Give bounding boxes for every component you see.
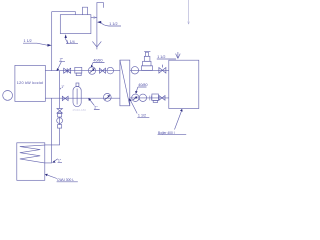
- svg-text:1'': 1'': [58, 159, 61, 163]
- flow arrow into bojler top: [176, 52, 181, 59]
- label 40/80 pump: [91, 59, 105, 68]
- label 2'' bottom with arrow: [88, 98, 99, 110]
- pump circle CP: [57, 118, 63, 124]
- right top vertical pipe: [188, 0, 190, 24]
- bojler tank 400 l: [169, 60, 199, 108]
- vertical branch pipe: [59, 71, 61, 109]
- wire top pipe to expansion tank: [52, 12, 76, 15]
- label 1 1/2 top-left: [23, 39, 52, 47]
- fitting square S1: [58, 114, 62, 118]
- top right pipe HX to bojler: [130, 69, 169, 71]
- label CWU 300 L: [45, 174, 78, 182]
- valve on bottom row: [62, 96, 68, 100]
- svg-text:40/80: 40/80: [138, 83, 147, 87]
- svg-text:1'': 1'': [61, 85, 64, 89]
- middle supply pipe: [45, 70, 120, 72]
- check valve V2: [100, 68, 106, 73]
- pump P2: [103, 94, 111, 102]
- label 2'' top of vertical branch: [57, 58, 66, 71]
- CWU tank: [17, 143, 45, 181]
- svg-text:1 1/2: 1 1/2: [138, 114, 146, 118]
- strainer/filter right: [152, 94, 159, 102]
- svg-text:CWU 300 L: CWU 300 L: [57, 178, 74, 182]
- expansion vessel capsule: [73, 83, 81, 107]
- wire tank outlet: [91, 17, 97, 19]
- wire branch to CWU top port: [45, 117, 60, 145]
- valve on branch (vertical bowtie): [57, 109, 62, 113]
- label 1 1/2 right top: [157, 55, 176, 59]
- svg-text:2'': 2'': [94, 106, 98, 110]
- safety valve group: [142, 52, 153, 71]
- meter circle C2: [107, 67, 114, 74]
- union fitting ticks: [150, 96, 152, 101]
- svg-text:Bojler 400 l: Bojler 400 l: [158, 131, 175, 135]
- bottom pipe right of HX: [130, 97, 169, 99]
- svg-text:1 1/2: 1 1/2: [157, 55, 165, 59]
- arrow small outlet: [93, 16, 96, 19]
- svg-text:120 kW kocioł: 120 kW kocioł: [17, 81, 44, 85]
- vent stub on tank: [83, 7, 88, 15]
- heat exchanger: [120, 60, 130, 106]
- strainer/filter middle row: [75, 67, 82, 75]
- twin circle pump 1: [132, 94, 139, 101]
- valve (gate) middle row: [64, 68, 71, 73]
- riser to CWU coil: [45, 98, 52, 163]
- main vertical pipe: [97, 3, 104, 50]
- circle C3: [131, 67, 138, 74]
- leader bojler label: [158, 109, 187, 135]
- expansion tank (top): [60, 15, 91, 34]
- label 1'' on branch: [60, 85, 65, 90]
- label 40/80 for twin pump: [135, 83, 147, 94]
- bottom return pipe left: [45, 97, 120, 99]
- flow arrow down on main pipe: [92, 41, 101, 47]
- svg-text:1 1/2: 1 1/2: [24, 39, 32, 43]
- coil inside CWU tank: [20, 145, 45, 163]
- label 1 1/2 top-middle: [97, 21, 121, 26]
- svg-text:2'': 2'': [60, 58, 64, 62]
- fitting square S2: [58, 125, 62, 129]
- svg-text:1 1/2: 1 1/2: [109, 22, 117, 26]
- boiler 120 kW: [15, 65, 45, 101]
- riser pipe left (expansion tank supply): [51, 12, 53, 71]
- svg-text:25/40-180: 25/40-180: [73, 108, 87, 112]
- label 1'' at CWU inlet: [52, 159, 62, 163]
- pump P1: [88, 67, 95, 74]
- valve right before bojler: [159, 96, 165, 101]
- label 1 1/2 under HX outlet: [129, 98, 149, 117]
- twin circle pump 2: [139, 94, 146, 101]
- valve V3 before bojler: [159, 65, 166, 74]
- svg-text:40/80: 40/80: [93, 59, 102, 63]
- burner circle on boiler: [3, 91, 13, 101]
- label 1 1/4 under expansion tank: [65, 34, 79, 44]
